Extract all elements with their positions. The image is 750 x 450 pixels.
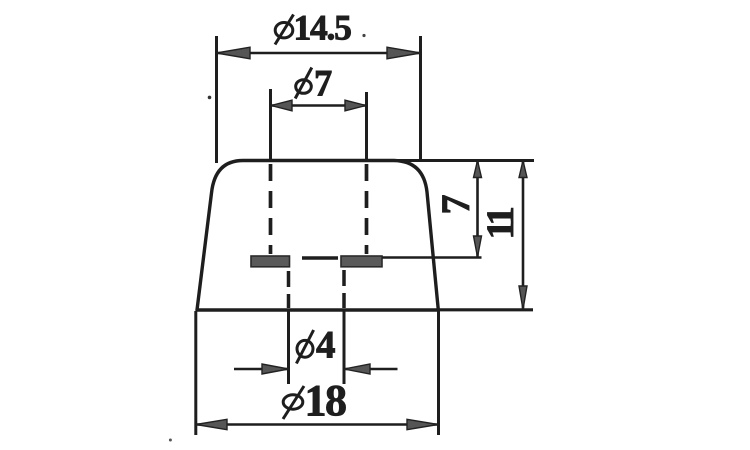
svg-text:11: 11 [479, 208, 522, 240]
svg-text:4: 4 [316, 324, 336, 367]
svg-text:14.5: 14.5 [294, 8, 352, 48]
svg-text:7: 7 [314, 63, 332, 104]
svg-text:18: 18 [305, 376, 347, 425]
svg-text:7: 7 [433, 195, 478, 215]
